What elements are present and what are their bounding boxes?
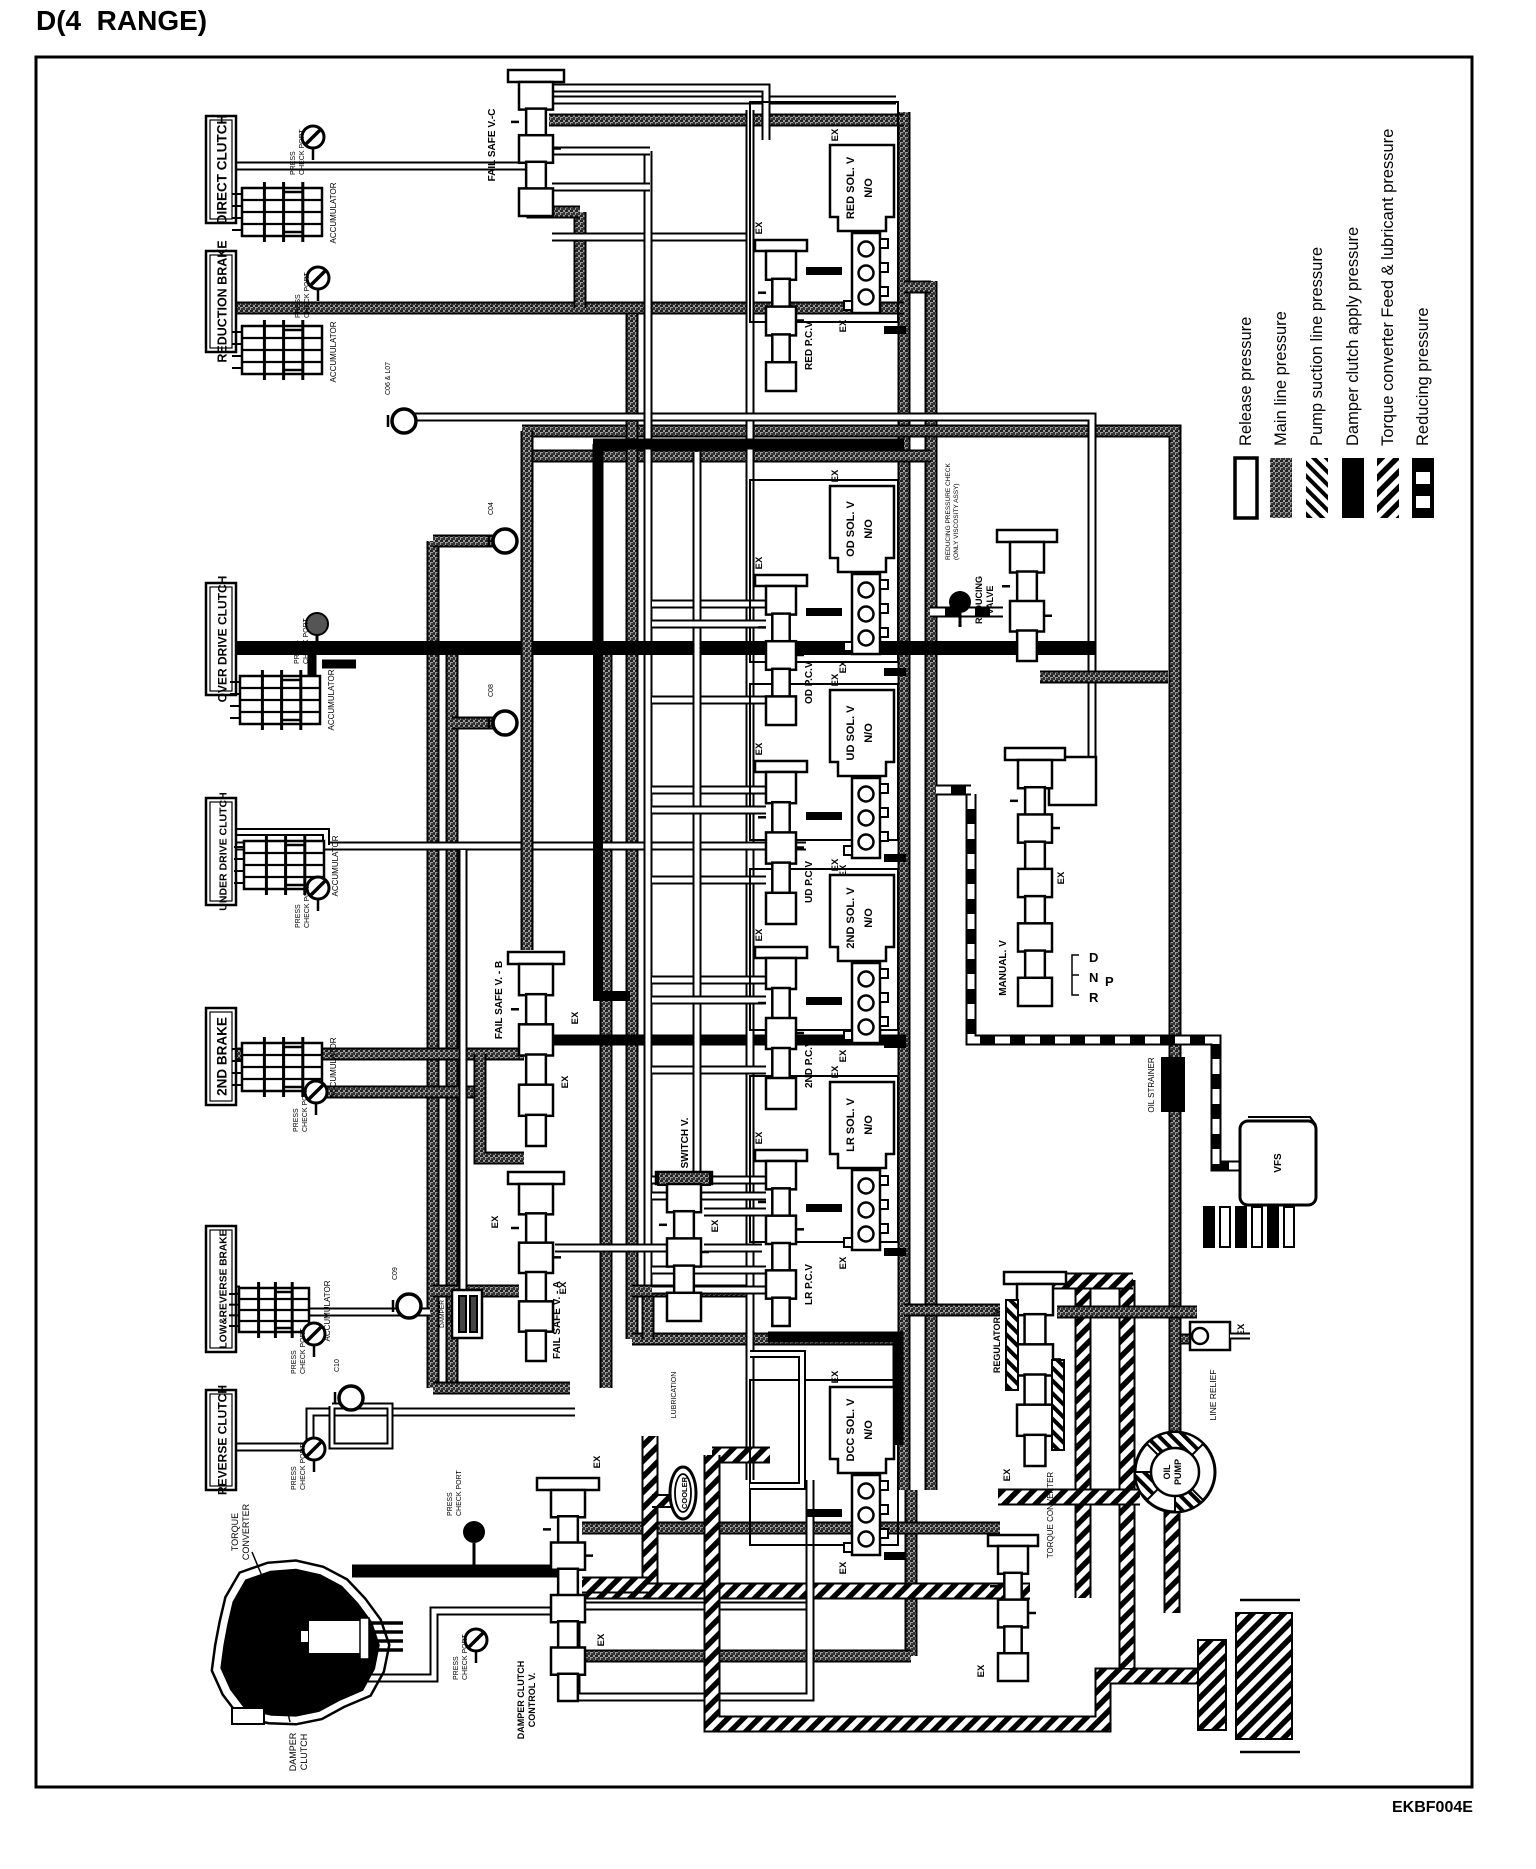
svg-text:PRESS: PRESS — [290, 151, 297, 175]
wire: damper-clutch apply line — [806, 997, 842, 1005]
wire: release-pressure line — [652, 620, 766, 629]
wire: main-line pressure line — [433, 535, 494, 548]
wire: main-line pressure line — [582, 1650, 911, 1663]
svg-text:Release pressure: Release pressure — [1237, 317, 1255, 446]
press check port — [303, 1323, 325, 1357]
manual valve top port — [1049, 757, 1096, 805]
valve spool — [511, 964, 561, 1146]
wire: release-pressure line — [332, 1406, 390, 1446]
accumulator — [229, 1282, 309, 1338]
oil pan suction filter — [1236, 1613, 1292, 1739]
line relief valve — [1190, 1322, 1230, 1350]
svg-text:PUMP: PUMP — [1173, 1459, 1183, 1485]
press check port — [305, 1081, 327, 1115]
valve end cap — [1005, 748, 1065, 760]
svg-text:ACCUMULATOR: ACCUMULATOR — [331, 835, 340, 896]
wire: release-pressure line — [404, 417, 1092, 757]
svg-text:N/O: N/O — [863, 908, 875, 928]
wire: release-pressure line — [652, 786, 766, 795]
svg-text:SWITCH V.: SWITCH V. — [680, 1117, 691, 1168]
oil strainer — [1161, 1057, 1185, 1112]
wire: torque-converter feed line — [582, 1577, 648, 1594]
wire: main-line pressure line — [904, 281, 931, 294]
wire: reducing pressure line — [936, 785, 971, 796]
wire: torque-converter feed line — [586, 1583, 1030, 1600]
solenoid valve body — [844, 1170, 888, 1250]
svg-text:EX: EX — [560, 1075, 571, 1088]
wire: main-line pressure line — [642, 1291, 655, 1339]
valve end cap — [1004, 1272, 1066, 1284]
wire: release-pressure line — [236, 162, 530, 171]
press check port — [303, 1438, 325, 1472]
torque converter outline — [212, 1561, 389, 1725]
valve end cap — [755, 761, 807, 772]
wire: release-pressure line — [746, 110, 755, 1480]
svg-text:D(4 RANGE): D(4 RANGE) — [36, 5, 207, 36]
valve spool — [758, 958, 804, 1109]
svg-text:EX: EX — [754, 928, 765, 941]
wire: main-line pressure line — [1181, 1334, 1199, 1345]
svg-text:REGULATOR V.: REGULATOR V. — [992, 1307, 1002, 1373]
wire: release-pressure line — [555, 1244, 668, 1253]
svg-text:PRESS: PRESS — [447, 1492, 454, 1516]
legend swatch dcc — [1342, 458, 1364, 518]
svg-text:ACCUMULATOR: ACCUMULATOR — [327, 669, 336, 730]
wire: release-pressure line — [806, 1480, 815, 1610]
wire: reducing pressure line — [930, 607, 1003, 618]
valve end cap — [755, 1150, 807, 1161]
wire: main-line pressure line — [574, 212, 587, 308]
valve spool — [1002, 542, 1052, 661]
wire: release-pressure line — [644, 151, 653, 1285]
wire: main-line pressure line — [904, 1304, 1000, 1317]
svg-text:PRESS: PRESS — [295, 904, 302, 928]
wire: main-line pressure line — [632, 1285, 746, 1298]
svg-text:FAIL SAFE V.-C: FAIL SAFE V.-C — [487, 109, 498, 182]
wire: damper-clutch apply line — [593, 444, 604, 648]
svg-text:EX: EX — [570, 1011, 581, 1024]
accumulator — [232, 320, 322, 380]
VFS solenoid — [1240, 1121, 1316, 1205]
svg-text:VALVE: VALVE — [985, 586, 995, 615]
solenoid valve body — [844, 778, 888, 858]
svg-text:LOW&REVERSE BRAKE: LOW&REVERSE BRAKE — [219, 1229, 230, 1348]
svg-text:EX: EX — [830, 858, 841, 871]
wire: release-pressure line — [693, 452, 702, 1180]
wire: release-pressure line — [652, 600, 766, 609]
valve spool — [1009, 1284, 1061, 1466]
wire: main-line pressure line — [521, 431, 534, 950]
svg-text:2ND SOL. V: 2ND SOL. V — [845, 887, 857, 949]
valve spool — [758, 586, 804, 725]
wire: damper-clutch apply line — [884, 668, 906, 676]
svg-text:N: N — [1089, 970, 1098, 985]
svg-text:EX: EX — [830, 1065, 841, 1078]
damper valve — [452, 1290, 482, 1338]
svg-text:C09: C09 — [392, 1267, 399, 1280]
svg-text:PRESS: PRESS — [291, 1466, 298, 1490]
svg-text:CONVERTER: CONVERTER — [241, 1503, 251, 1560]
svg-text:VFS: VFS — [1273, 1153, 1284, 1173]
legend swatch pump — [1306, 458, 1328, 518]
solenoid box 2ND SOL. V N/O — [830, 875, 894, 961]
svg-text:PRESS: PRESS — [291, 1350, 298, 1374]
wire: damper-clutch apply line — [806, 267, 842, 275]
svg-text:UNDER DRIVE CLUTCH: UNDER DRIVE CLUTCH — [218, 792, 230, 910]
svg-text:CHECK PORT: CHECK PORT — [304, 272, 311, 318]
svg-text:EX: EX — [830, 1370, 841, 1383]
valve spool — [659, 1184, 709, 1321]
svg-text:EX: EX — [838, 660, 849, 673]
wire: damper-clutch apply line — [884, 1552, 906, 1560]
wire: release-pressure line — [652, 1266, 766, 1275]
svg-text:C04: C04 — [488, 502, 495, 515]
svg-text:EX: EX — [1056, 871, 1067, 884]
wire: release-pressure line — [236, 842, 806, 851]
wire: main-line pressure line — [632, 1333, 898, 1346]
wire: release-pressure line — [652, 1176, 766, 1185]
svg-text:UD P.C.V: UD P.C.V — [804, 861, 815, 903]
wire: damper-clutch apply line — [884, 1248, 906, 1256]
solenoid box UD SOL. V N/O — [830, 690, 894, 776]
wire: release-pressure line — [652, 996, 766, 1005]
wire: torque-converter feed line — [1119, 1280, 1136, 1668]
check ball — [335, 1386, 363, 1410]
svg-text:EX: EX — [754, 1131, 765, 1144]
wire: main-line pressure line — [898, 112, 911, 1490]
wire: main-line pressure line — [433, 1382, 570, 1395]
accumulator — [230, 670, 320, 730]
wire: main-line pressure line — [905, 1490, 918, 1656]
svg-text:RED SOL. V: RED SOL. V — [845, 156, 857, 219]
wire: damper-clutch apply line — [546, 1035, 906, 1046]
wire: torque-converter feed line — [1051, 1273, 1133, 1290]
svg-text:CHECK PORT: CHECK PORT — [299, 129, 306, 175]
accumulator — [234, 835, 324, 895]
svg-text:N/O: N/O — [863, 723, 875, 743]
wire: damper-clutch apply line — [884, 326, 906, 334]
wire: release-pressure line — [704, 1244, 762, 1253]
svg-text:Torque converter Feed & lubric: Torque converter Feed & lubricant pressu… — [1379, 129, 1397, 446]
valve end cap — [755, 575, 807, 586]
svg-text:Pump suction line pressure: Pump suction line pressure — [1308, 247, 1326, 446]
wire: main-line pressure line — [231, 302, 904, 315]
svg-text:EX: EX — [830, 128, 841, 141]
svg-text:CLUTCH: CLUTCH — [299, 1734, 309, 1771]
solenoid valve body — [844, 963, 888, 1043]
wire: torque-converter feed line — [712, 1447, 770, 1464]
wire: damper-clutch apply line — [806, 1509, 842, 1517]
torque converter body — [220, 1569, 379, 1717]
svg-text:N/O: N/O — [863, 1420, 875, 1440]
svg-text:CHECK PORT: CHECK PORT — [300, 1328, 307, 1374]
svg-text:DCC SOL. V: DCC SOL. V — [845, 1398, 857, 1462]
wire: main-line pressure line — [452, 717, 494, 730]
svg-text:EX: EX — [490, 1215, 501, 1228]
wire: release-pressure line — [576, 1606, 810, 1697]
svg-text:2ND BRAKE: 2ND BRAKE — [215, 1017, 230, 1096]
legend swatch rel — [1235, 458, 1257, 518]
svg-text:PRESS: PRESS — [295, 294, 302, 318]
svg-text:TORQUE: TORQUE — [230, 1513, 240, 1551]
wire: release-pressure line — [652, 1286, 766, 1295]
check ball — [393, 1294, 421, 1318]
svg-text:REDUCTION BRAKE: REDUCTION BRAKE — [216, 240, 230, 362]
svg-text:DAMPER: DAMPER — [288, 1732, 298, 1771]
wire: release-pressure line — [652, 876, 766, 885]
accumulator — [232, 1037, 322, 1097]
svg-text:PRESS: PRESS — [293, 1108, 300, 1132]
svg-text:CHECK PORT: CHECK PORT — [462, 1634, 469, 1680]
wire: torque-converter feed line — [712, 1455, 1218, 1724]
svg-text:OD SOL. V: OD SOL. V — [845, 501, 857, 557]
svg-text:C08: C08 — [488, 684, 495, 697]
solenoid valve body — [844, 574, 888, 654]
svg-text:EX: EX — [596, 1633, 607, 1646]
svg-text:REDUCING: REDUCING — [974, 576, 984, 624]
solenoid box OD SOL. V N/O — [830, 486, 894, 572]
svg-text:CHECK PORT: CHECK PORT — [304, 882, 311, 928]
solenoid box DCC SOL. V N/O — [830, 1387, 894, 1473]
wire: release-pressure line — [652, 806, 766, 815]
svg-text:RED P.C.V: RED P.C.V — [804, 321, 815, 370]
press check port — [307, 877, 329, 911]
svg-text:VALVE: VALVE — [447, 1303, 454, 1324]
svg-text:C10: C10 — [334, 1359, 341, 1372]
svg-text:EX: EX — [754, 221, 765, 234]
label box REDUCTION BRAKE — [206, 240, 236, 362]
wire: main-line pressure line — [1057, 1306, 1197, 1319]
press check port — [307, 267, 329, 301]
valve spool — [543, 1490, 593, 1701]
press check port — [949, 591, 971, 627]
svg-text:COOLER: COOLER — [680, 1476, 689, 1509]
svg-text:EX: EX — [710, 1219, 721, 1232]
legend swatch tc — [1377, 458, 1399, 518]
wire: torque-converter feed line — [1075, 1283, 1092, 1598]
svg-text:OVER DRIVE CLUTCH: OVER DRIVE CLUTCH — [216, 576, 230, 703]
svg-text:LUBRICATION: LUBRICATION — [671, 1372, 678, 1419]
wire: main-line pressure line — [236, 1048, 524, 1061]
svg-text:EKBF004E: EKBF004E — [1392, 1799, 1473, 1816]
svg-text:EX: EX — [838, 1256, 849, 1269]
label box REVERSE CLUTCH — [206, 1385, 236, 1495]
wire: release-pressure line — [652, 976, 766, 985]
svg-text:EX: EX — [754, 742, 765, 755]
wire: main-line pressure line — [1040, 671, 1168, 684]
solenoid box RED SOL. V N/O — [830, 145, 894, 231]
wire: main-line pressure line — [427, 541, 440, 1388]
wire: torque-converter feed line — [642, 1436, 659, 1584]
svg-text:ACCUMULATOR: ACCUMULATOR — [329, 1037, 338, 1098]
svg-text:CHECK PORT: CHECK PORT — [303, 618, 310, 664]
wire: main-line pressure line — [925, 281, 938, 1490]
cooler — [670, 1467, 696, 1519]
svg-text:ACCUMULATOR: ACCUMULATOR — [329, 321, 338, 382]
valve end cap — [537, 1478, 599, 1490]
valve end cap — [508, 70, 564, 82]
solenoid valve body — [844, 233, 888, 313]
svg-text:EX: EX — [838, 319, 849, 332]
svg-text:OIL STRAINER: OIL STRAINER — [1147, 1057, 1156, 1112]
valve end cap — [508, 952, 564, 964]
check ball — [489, 711, 517, 735]
legend swatch main — [1270, 458, 1292, 518]
wire: main-line pressure line — [522, 450, 931, 463]
svg-text:LINE RELIEF: LINE RELIEF — [1208, 1369, 1218, 1420]
svg-text:Damper clutch apply pressure: Damper clutch apply pressure — [1344, 227, 1362, 446]
wire: main-line pressure line — [549, 114, 904, 127]
svg-text:FAIL SAFE V. - B: FAIL SAFE V. - B — [494, 961, 505, 1039]
svg-text:DIRECT CLUTCH: DIRECT CLUTCH — [215, 115, 230, 225]
svg-text:N/O: N/O — [863, 519, 875, 539]
valve spool — [758, 772, 804, 924]
svg-text:DAMPER CLUTCH: DAMPER CLUTCH — [516, 1661, 526, 1740]
wire: torque-converter feed line — [652, 1494, 672, 1508]
wire: release-pressure line — [459, 850, 468, 1290]
svg-text:REDUCING PRESSURE CHECK: REDUCING PRESSURE CHECK — [945, 463, 952, 560]
wire: release-pressure line — [652, 696, 766, 705]
label box OVER DRIVE CLUTCH — [206, 576, 236, 703]
svg-text:OD P.C.V: OD P.C.V — [804, 661, 815, 704]
wire: release-pressure line — [552, 96, 896, 105]
svg-text:(ONLY VISCOSITY ASSY): (ONLY VISCOSITY ASSY) — [953, 483, 960, 560]
svg-text:TORQUE CONVERTER: TORQUE CONVERTER — [1046, 1472, 1055, 1559]
svg-text:EX: EX — [830, 673, 841, 686]
svg-text:CHECK PORT: CHECK PORT — [300, 1444, 307, 1490]
svg-text:LR SOL. V: LR SOL. V — [845, 1097, 857, 1151]
wire: damper-clutch apply line — [768, 1337, 898, 1445]
valve end cap — [755, 947, 807, 958]
svg-text:EX: EX — [838, 1049, 849, 1062]
valve end cap — [656, 1172, 712, 1184]
check ball — [388, 409, 416, 433]
svg-text:EX: EX — [1002, 1468, 1013, 1481]
svg-text:Reducing pressure: Reducing pressure — [1414, 308, 1432, 447]
valve spool — [758, 1161, 804, 1326]
wire: damper-clutch apply line — [593, 439, 904, 450]
check ball — [489, 529, 517, 553]
wire: main-line pressure line — [600, 648, 613, 1388]
wire: release-pressure line — [652, 1066, 766, 1075]
oil pump — [1135, 1432, 1215, 1512]
svg-text:OIL: OIL — [1162, 1464, 1172, 1480]
svg-text:ACCUMULATOR: ACCUMULATOR — [329, 182, 338, 243]
legend swatch red — [1412, 458, 1434, 518]
wire: reducing pressure line — [971, 794, 1245, 1166]
wire: release-pressure line — [652, 1192, 766, 1201]
svg-text:EX: EX — [558, 1281, 569, 1294]
valve end cap — [755, 240, 807, 251]
valve end cap — [508, 1172, 564, 1184]
svg-text:EX: EX — [754, 556, 765, 569]
press check port — [302, 126, 324, 160]
svg-text:MANUAL. V: MANUAL. V — [998, 940, 1009, 996]
svg-text:DAMPER: DAMPER — [439, 1300, 446, 1328]
svg-text:EX: EX — [838, 1561, 849, 1574]
svg-text:2ND P.C.V: 2ND P.C.V — [804, 1040, 815, 1088]
wire: release-pressure line — [223, 1286, 240, 1295]
wire: damper-clutch apply line — [236, 641, 1096, 655]
valve spool — [758, 251, 804, 391]
wire: damper-clutch apply line — [806, 1204, 842, 1212]
svg-text:EX: EX — [592, 1455, 603, 1468]
damper clutch element — [308, 1620, 362, 1654]
valve end cap — [997, 530, 1057, 542]
valve spool — [511, 1184, 561, 1361]
wire: release-pressure line — [552, 147, 650, 156]
solenoid box LR SOL. V N/O — [830, 1082, 894, 1168]
wire: release-pressure line — [704, 1208, 766, 1217]
wire: release-pressure line — [360, 1611, 576, 1678]
svg-text:C06 & L07: C06 & L07 — [385, 362, 392, 395]
label box UNDER DRIVE CLUTCH — [206, 792, 236, 910]
wire: main-line pressure line — [582, 1522, 1000, 1535]
svg-text:D: D — [1089, 950, 1098, 965]
valve spool — [990, 1546, 1036, 1681]
wire: damper-clutch apply line — [806, 608, 842, 616]
svg-text:CHECK PORT: CHECK PORT — [456, 1470, 463, 1516]
wire: main-line pressure line — [533, 196, 580, 212]
svg-text:PRESS: PRESS — [453, 1656, 460, 1680]
svg-text:PRESS: PRESS — [294, 640, 301, 664]
label box LOW&amp;REVERSE BRAKE — [206, 1226, 236, 1352]
svg-text:Main line pressure: Main line pressure — [1272, 311, 1290, 446]
wire: damper-clutch apply line — [322, 660, 356, 669]
svg-text:UD SOL. V: UD SOL. V — [845, 705, 857, 761]
wire: damper-clutch apply line — [884, 854, 906, 862]
wire: release-pressure line — [1230, 1333, 1250, 1340]
svg-text:N/O: N/O — [863, 178, 875, 198]
wire: main-line pressure line — [446, 648, 459, 1388]
wire: torque-converter feed line — [1164, 1512, 1181, 1613]
wire: release-pressure line — [307, 1308, 430, 1317]
wire: main-line pressure line — [522, 431, 1175, 1433]
valve end cap — [988, 1535, 1038, 1546]
wire: release-pressure line — [228, 832, 326, 845]
label box 2ND BRAKE — [206, 1008, 236, 1105]
svg-text:N/O: N/O — [863, 1115, 875, 1135]
svg-text:CHECK PORT: CHECK PORT — [302, 1086, 309, 1132]
wire: damper-clutch apply line — [884, 1040, 906, 1048]
wire: main-line pressure line — [626, 314, 639, 1339]
wire: release-pressure line — [222, 1412, 575, 1447]
wire: release-pressure line — [552, 233, 750, 242]
svg-text:EX: EX — [830, 469, 841, 482]
svg-text:LR P.C.V: LR P.C.V — [804, 1264, 815, 1305]
wire: damper-clutch apply line — [598, 648, 630, 996]
svg-text:CONTROL V.: CONTROL V. — [527, 1673, 537, 1728]
valve spool — [511, 82, 561, 216]
wire: damper-clutch apply line — [806, 812, 842, 820]
wire: main-line pressure line — [480, 1054, 524, 1158]
svg-text:REVERSE CLUTCH: REVERSE CLUTCH — [216, 1385, 230, 1495]
solenoid valve body — [844, 1475, 888, 1555]
wire: release-pressure line — [552, 88, 766, 140]
label box DIRECT CLUTCH — [206, 115, 236, 225]
wire: main-line pressure line — [433, 1285, 519, 1298]
wire: release-pressure line — [750, 1354, 802, 1486]
wire: damper-clutch apply line — [308, 648, 317, 680]
valve spool — [1010, 760, 1060, 1006]
wire: torque-converter feed line — [998, 1489, 1140, 1506]
svg-text:P: P — [1105, 974, 1114, 989]
wire: release-pressure line — [552, 183, 650, 192]
svg-text:R: R — [1089, 990, 1099, 1005]
wire: main-line pressure line — [320, 1086, 480, 1099]
svg-text:EX: EX — [976, 1664, 987, 1677]
wire: damper-clutch apply line — [352, 1565, 560, 1578]
